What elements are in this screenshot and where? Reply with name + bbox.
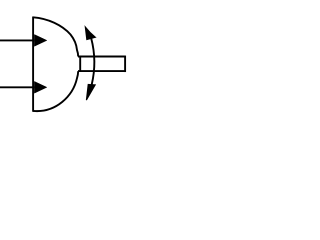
semi-rotary actuator symbol [0, 0, 128, 128]
actuator body arc upper piece [33, 17, 78, 56]
flow arrowhead on P2 [34, 81, 46, 93]
actuator body chord (flat left side) [32, 17, 34, 112]
output shaft right edge [124, 56, 126, 73]
output shaft bottom edge [78, 70, 125, 72]
port line P1 [0, 39, 34, 41]
output shaft top edge [78, 56, 125, 58]
output shaft left edge [79, 57, 81, 72]
port line P2 [0, 86, 34, 88]
rotation arrowhead bottom [86, 84, 95, 100]
actuator body arc lower piece [33, 71, 78, 111]
rotation arrowhead top [85, 27, 95, 40]
flow arrowhead on P1 [34, 35, 46, 47]
rotation arc (double-headed arrow body) [91, 38, 94, 84]
